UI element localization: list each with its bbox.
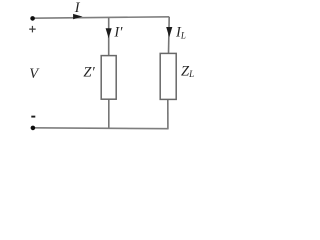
svg-text:I: I: [74, 0, 81, 16]
svg-text:I′: I′: [113, 25, 123, 41]
svg-text:ZL: ZL: [181, 64, 194, 80]
current arrow I_L (down, branch 2): [166, 27, 172, 37]
svg-text:Z′: Z′: [83, 65, 95, 81]
impedance Z_L box: [160, 53, 176, 99]
node dot bottom-left (- terminal): [31, 126, 36, 131]
wire top horizontal: [33, 17, 170, 18]
svg-text:V: V: [29, 66, 40, 82]
wire Z' branch bottom: [108, 99, 110, 128]
plus sign: [29, 26, 36, 33]
wire right vertical drop to Z_L: [168, 17, 171, 54]
current arrow I (rightward on top wire): [73, 14, 83, 19]
svg-text:IL: IL: [175, 24, 186, 40]
node dot top-left (+ terminal): [30, 16, 35, 21]
wire Z_L branch bottom: [167, 100, 169, 129]
current arrow I' (down, branch 1): [106, 28, 112, 38]
minus sign: [31, 116, 35, 118]
wire bottom horizontal: [33, 127, 169, 130]
impedance Z' box: [101, 56, 116, 100]
wire Z' branch top: [108, 18, 110, 56]
